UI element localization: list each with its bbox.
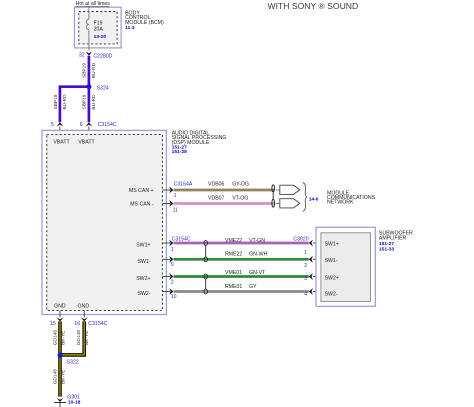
module Body Control Module (BCM) box: [75, 7, 122, 48]
svg-text:VBATT: VBATT: [53, 140, 70, 146]
pin label SW1- (DSP): [138, 259, 170, 265]
wire continuation stub to off-page arrow (VDB07): [276, 203, 280, 205]
wire SBP19 BU-RD left branch down to pin 5: [53, 85, 68, 122]
svg-text:GY-OG: GY-OG: [232, 182, 249, 188]
svg-text:SW2+: SW2+: [136, 276, 150, 282]
connector pin 1 arrow (subwoofer side, SW1+): [304, 240, 321, 256]
pin label MS CAN -: [130, 201, 170, 207]
connector pin 3 arrow (subwoofer side, SW2+): [304, 273, 321, 282]
node label Hot at all times: [75, 1, 110, 7]
module label AUDIO DIGITAL SIGNAL PROCESSING (DSP) MODULE: [172, 131, 227, 156]
connector pin 1 arrow (DSP side, SW1+): [169, 240, 174, 253]
wire SBP19 BU-RD from C2280D to splice S324: [82, 56, 97, 87]
svg-text:1: 1: [304, 250, 307, 256]
svg-text:BU-RD: BU-RD: [91, 94, 97, 110]
svg-text:151-27: 151-27: [379, 241, 395, 247]
connector C2280D pin 32 (down arrow): [79, 52, 113, 60]
wire GD148 BK-YE right (pin 16 to S322): [61, 321, 90, 355]
connector C3154A pin 11 (right arrow): [169, 200, 178, 214]
svg-text:GN-WH: GN-WH: [249, 252, 267, 258]
splice S322 junction dot: [58, 353, 63, 358]
twisted pair symbol (SW2 pair): [204, 274, 208, 294]
connector C3154C pin 6 (up arrow into DSP): [80, 122, 117, 135]
svg-text:NETWORK: NETWORK: [327, 200, 354, 206]
connector pin 10 arrow (DSP side, SW2-): [169, 288, 176, 300]
wire fuse to connector C2280D: [88, 30, 90, 51]
wire RME22 GN-WH: [174, 252, 309, 260]
pin label SW2- (DSP): [138, 291, 170, 297]
svg-text:SW1-: SW1-: [138, 259, 151, 265]
connector pin 2 arrow (subwoofer side, SW1-): [304, 256, 321, 269]
svg-text:RME01: RME01: [225, 284, 242, 290]
svg-text:BK-YE: BK-YE: [84, 330, 90, 344]
svg-text:11-3: 11-3: [125, 25, 135, 31]
svg-text:VBATT: VBATT: [78, 140, 95, 146]
module label SUBWOOFER AMPLIFIER: [379, 231, 413, 253]
svg-text:1: 1: [171, 247, 174, 253]
fuse F19 20A: [86, 19, 106, 40]
svg-text:VDB07: VDB07: [208, 195, 225, 201]
ground G301: [54, 395, 81, 407]
svg-text:RME22: RME22: [225, 252, 242, 258]
wire VME22 VT-GN: [174, 238, 309, 244]
wire from hot bar into fuse: [88, 6, 90, 19]
svg-text:1: 1: [174, 193, 177, 199]
connector C3154C pin 16 (down arrow): [74, 317, 107, 327]
pin label GND (left): [54, 304, 66, 318]
svg-text:5: 5: [51, 122, 54, 128]
svg-text:SW1+: SW1+: [325, 241, 339, 247]
svg-text:VME22: VME22: [225, 238, 242, 244]
svg-text:GD148: GD148: [53, 330, 59, 346]
connector C3154C pin 5 (up arrow into DSP): [51, 122, 63, 135]
wire SBP19 BU-RD right branch down to pin 6: [82, 87, 97, 123]
svg-text:32: 32: [79, 53, 85, 59]
svg-text:AMPLIFIER: AMPLIFIER: [379, 236, 407, 242]
wire RME01 GY: [174, 284, 309, 292]
svg-text:VDB06: VDB06: [208, 182, 225, 188]
wire VDB07 VT-OG: [174, 195, 275, 203]
wire GD148 BK-YE left (pin 15 to S322): [53, 321, 67, 355]
svg-text:3: 3: [304, 276, 307, 282]
connector C3154A pin 1 (right arrow): [169, 181, 193, 199]
svg-text:BU-RD: BU-RD: [91, 62, 97, 78]
svg-text:S324: S324: [97, 85, 109, 91]
module label BODY CONTROL MODULE (BCM): [125, 10, 164, 31]
svg-text:C3020: C3020: [293, 237, 308, 243]
svg-text:15: 15: [50, 321, 56, 327]
svg-text:BK-YE: BK-YE: [60, 330, 66, 344]
svg-text:13-20: 13-20: [94, 34, 107, 40]
svg-text:GN-VT: GN-VT: [249, 270, 266, 276]
svg-text:GY: GY: [249, 284, 257, 290]
svg-text:C3154C: C3154C: [172, 237, 191, 243]
splice S324 junction dot: [86, 84, 91, 89]
brace for module communications network: [303, 182, 307, 211]
svg-text:151-28: 151-28: [172, 149, 188, 155]
svg-text:SBP19: SBP19: [82, 94, 88, 109]
svg-text:16: 16: [74, 321, 80, 327]
svg-text:MS CAN -: MS CAN -: [130, 201, 154, 207]
svg-text:SW2-: SW2-: [138, 291, 151, 297]
svg-text:10: 10: [171, 294, 177, 300]
svg-text:SBP19: SBP19: [82, 63, 88, 78]
wire VDB06 GY-OG: [174, 182, 275, 190]
svg-text:BU-RD: BU-RD: [62, 94, 68, 110]
wire GD148 BK-YE (S322 to ground G301): [53, 355, 67, 396]
svg-text:14-6: 14-6: [309, 196, 319, 202]
twisted pair symbol (SW1 pair): [204, 241, 208, 262]
connector C3154C pin 15 (down arrow): [50, 317, 63, 327]
svg-text:SW2+: SW2+: [325, 276, 339, 282]
svg-text:WITH SONY ® SOUND: WITH SONY ® SOUND: [268, 1, 359, 11]
svg-text:9: 9: [171, 262, 174, 268]
svg-text:C3154A: C3154A: [174, 181, 193, 187]
svg-text:C2280D: C2280D: [93, 53, 112, 59]
off-page arrow (VDB06): [280, 185, 300, 194]
svg-text:SBP19: SBP19: [53, 94, 59, 109]
svg-text:BK-YE: BK-YE: [60, 369, 66, 383]
module Subwoofer Amplifier box: [316, 227, 375, 306]
svg-text:SW1-: SW1-: [325, 258, 338, 264]
svg-text:20A: 20A: [94, 26, 104, 32]
svg-text:VME01: VME01: [225, 270, 242, 276]
svg-text:10-18: 10-18: [68, 400, 81, 406]
pin label GND (right): [78, 304, 90, 318]
svg-text:GD148: GD148: [76, 330, 82, 346]
connector pin 9 arrow (DSP side, SW1-): [169, 256, 174, 268]
twisted pair symbol (MS CAN): [272, 185, 275, 207]
svg-text:11: 11: [173, 208, 178, 214]
svg-text:151-33: 151-33: [379, 247, 395, 253]
svg-text:6: 6: [80, 122, 83, 128]
wire branch left from S324: [60, 85, 89, 88]
svg-text:MS CAN +: MS CAN +: [129, 188, 154, 194]
connector pin 2 arrow (DSP side, SW2+): [169, 273, 174, 286]
svg-text:4: 4: [304, 291, 307, 297]
module Audio DSP box: [42, 130, 166, 314]
svg-text:SW1+: SW1+: [136, 243, 150, 249]
svg-text:GD148: GD148: [53, 369, 59, 385]
wire continuation stub to off-page arrow (VDB06): [276, 189, 280, 191]
connector pin 4 arrow (subwoofer side, SW2-): [304, 288, 321, 297]
svg-text:SW2-: SW2-: [325, 292, 338, 298]
pin label SW2+ (DSP): [136, 276, 170, 282]
svg-text:C3154C: C3154C: [98, 122, 117, 128]
svg-text:VT-OG: VT-OG: [232, 195, 248, 201]
wire VME01 GN-VT: [174, 270, 309, 276]
svg-text:2: 2: [171, 280, 174, 286]
svg-text:VT-GN: VT-GN: [249, 238, 265, 244]
net label MODULE COMMUNICATIONS NETWORK 14-6: [309, 190, 376, 205]
svg-text:GND: GND: [78, 304, 90, 310]
svg-text:GND: GND: [54, 304, 66, 310]
svg-text:2: 2: [304, 263, 307, 269]
pin label SW1+ (DSP): [136, 243, 170, 249]
pin label MS CAN +: [129, 188, 170, 194]
svg-text:C3154C: C3154C: [88, 321, 107, 327]
off-page arrow (VDB07): [280, 199, 300, 208]
svg-text:S322: S322: [67, 359, 79, 365]
